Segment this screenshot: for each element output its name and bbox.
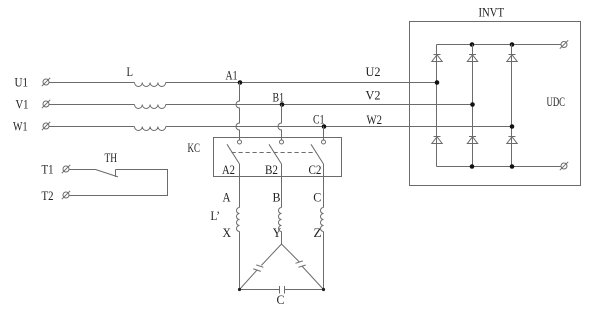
wire Z down to delta corner xyxy=(323,232,325,290)
inductor L' phase A xyxy=(237,208,240,232)
svg-text:C: C xyxy=(313,190,321,205)
wire A1 down with jumps xyxy=(236,83,239,140)
terminal T1 xyxy=(62,165,70,173)
KC contact B blade xyxy=(269,144,282,164)
rectifier INVT box xyxy=(410,22,581,186)
svg-text:L: L xyxy=(127,64,134,79)
svg-text:A1: A1 xyxy=(226,68,238,83)
node W2 junction xyxy=(510,124,515,129)
node bus bottom column3 xyxy=(510,164,515,169)
terminal T2 xyxy=(62,191,70,199)
thermal contact TH blade xyxy=(96,170,119,177)
svg-text:T1: T1 xyxy=(42,162,54,177)
terminal DC+ xyxy=(560,40,568,48)
node bus top column2 xyxy=(470,42,475,47)
wire Y down to delta apex xyxy=(281,232,283,245)
wire W1 to L xyxy=(49,126,135,128)
wire B1 down with jump xyxy=(278,105,281,140)
svg-text:W2: W2 xyxy=(367,112,383,127)
node delta bottom-left xyxy=(238,288,241,291)
wire U2 from L to rectifier xyxy=(166,82,437,84)
svg-text:B: B xyxy=(273,190,281,205)
delta bottom wire right xyxy=(285,289,324,291)
diode D6 xyxy=(507,137,517,144)
wire A2 down to coil xyxy=(239,164,241,208)
node A1 xyxy=(238,80,243,85)
node delta bottom-right xyxy=(322,288,325,291)
svg-text:V2: V2 xyxy=(366,88,381,103)
capacitor right plates xyxy=(296,261,303,263)
inductor L phase U xyxy=(135,83,166,87)
svg-text:T2: T2 xyxy=(42,188,54,203)
capacitor right diagonal wire lower xyxy=(302,266,324,289)
svg-text:W1: W1 xyxy=(13,119,28,134)
DC+ bus wire xyxy=(437,44,562,46)
diode D5 xyxy=(467,137,477,144)
wire C1 down xyxy=(323,127,325,140)
capacitor left diagonal wire lower xyxy=(240,270,257,289)
svg-text:TH: TH xyxy=(105,150,118,165)
wire T1 to TH xyxy=(69,169,96,171)
node bus top column3 xyxy=(510,42,515,47)
svg-text:V1: V1 xyxy=(16,97,29,112)
inductor L phase V xyxy=(135,105,166,109)
wire B2 down to coil xyxy=(281,164,283,208)
svg-text:A2: A2 xyxy=(222,162,235,177)
inductor L' phase C xyxy=(321,208,324,232)
svg-text:C2: C2 xyxy=(309,162,322,177)
terminal V1 xyxy=(42,100,50,108)
wire U1 to L xyxy=(49,82,135,84)
svg-text:X: X xyxy=(223,225,232,240)
DC- bus wire xyxy=(437,166,561,168)
KC contact C blade xyxy=(311,144,324,164)
wire TH to right xyxy=(69,170,168,196)
KC contact B fixed circle xyxy=(280,140,284,144)
svg-text:UDC: UDC xyxy=(547,94,566,109)
node bus bottom column2 xyxy=(470,164,475,169)
svg-text:B2: B2 xyxy=(265,162,278,177)
KC contact C fixed circle xyxy=(322,140,326,144)
svg-text:L’: L’ xyxy=(211,208,221,223)
wire V2 from L to rectifier xyxy=(166,104,473,106)
wire column2 vertical xyxy=(472,45,474,167)
svg-text:KC: KC xyxy=(188,140,201,155)
svg-text:INVT: INVT xyxy=(479,5,505,20)
inductor L phase W xyxy=(135,127,166,131)
capacitor C bottom plates xyxy=(279,286,281,294)
diode D3 xyxy=(507,55,517,62)
capacitor left diagonal wire upper xyxy=(261,244,281,265)
node C1 xyxy=(322,124,327,129)
svg-text:Y: Y xyxy=(273,225,282,240)
diode D2 xyxy=(467,55,477,62)
node B1 xyxy=(280,102,285,107)
inductor L' phase B xyxy=(279,208,282,232)
svg-text:C: C xyxy=(277,292,285,307)
delta bottom wire left xyxy=(240,289,280,291)
wire column3 vertical xyxy=(511,45,513,167)
wire column1 vertical xyxy=(436,45,438,167)
capacitor left plates xyxy=(256,265,263,267)
capacitor right diagonal wire upper xyxy=(282,244,300,262)
wire W2 from L to rectifier xyxy=(166,126,512,128)
svg-text:A: A xyxy=(223,190,232,205)
terminal W1 xyxy=(42,122,50,130)
wire X down to delta corner xyxy=(239,232,241,290)
contactor KC box xyxy=(214,138,342,177)
svg-text:C1: C1 xyxy=(313,112,325,127)
thermal contact TH fixed xyxy=(115,170,117,178)
wire C2 down to coil xyxy=(323,164,325,208)
terminal DC- xyxy=(560,162,568,170)
KC contact A blade xyxy=(227,144,240,164)
svg-text:U1: U1 xyxy=(15,75,29,90)
KC linkage dashed line xyxy=(232,152,317,154)
wire V1 to L xyxy=(49,104,135,106)
diode D1 xyxy=(432,55,442,62)
diode D4 xyxy=(432,137,442,144)
node V2 junction xyxy=(470,102,475,107)
node U2 junction xyxy=(435,80,440,85)
terminal U1 xyxy=(42,78,50,86)
svg-text:U2: U2 xyxy=(366,64,381,79)
KC contact A fixed circle xyxy=(238,140,242,144)
